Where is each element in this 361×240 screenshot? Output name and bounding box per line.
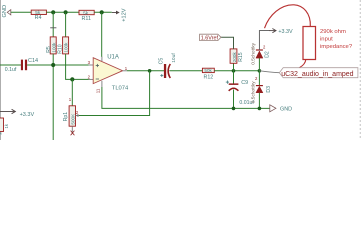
svg-text:R5: R5: [46, 46, 52, 53]
junction R15/C9 node: [232, 69, 236, 73]
svg-text:+3.3V: +3.3V: [278, 29, 293, 35]
junction top node B: [64, 10, 68, 14]
svg-text:1.6Vref: 1.6Vref: [201, 36, 219, 42]
svg-text:0.5chottky: 0.5chottky: [251, 42, 257, 64]
wire pot wiper feedback to output: [79, 71, 150, 116]
potentiometer RP1 500K: [63, 79, 79, 135]
ground flag GND top-left: [2, 5, 11, 18]
pin stub pin 3: [89, 64, 94, 66]
wire R5 to signal row junction: [52, 54, 54, 65]
junction C9 ground: [232, 107, 236, 111]
svg-text:k: k: [0, 132, 2, 136]
svg-text:+3.3V: +3.3V: [20, 112, 35, 118]
svg-text:1k: 1k: [4, 123, 9, 128]
wire node up to D2: [258, 58, 260, 71]
svg-text:1: 1: [69, 97, 72, 102]
output pin stub pin 1: [123, 70, 127, 72]
wire GND to R4: [11, 11, 31, 13]
junction +12V node: [100, 10, 104, 14]
svg-text:2: 2: [88, 74, 91, 79]
wire node down to D3: [258, 71, 260, 86]
wire D2 to +3.3V: [259, 31, 269, 50]
diode D3 schottky: [251, 81, 272, 103]
supply arrow +12V: [112, 8, 128, 21]
ground flag GND bottom-right: [270, 105, 292, 113]
wire output to C5: [127, 70, 164, 72]
svg-text:2: 2: [263, 45, 266, 50]
net label uC32_audio_in_amped: [279, 68, 358, 78]
resistor R5 100k: [46, 37, 57, 54]
power pin bottom (pin 11): [101, 81, 103, 87]
svg-text:U1A: U1A: [107, 54, 119, 60]
svg-text:Rp1: Rp1: [63, 112, 69, 122]
power pin top (12V): [101, 57, 103, 61]
junction D3 ground: [258, 107, 262, 111]
svg-text:input: input: [320, 36, 333, 42]
annotation text 290k ohm input impedance?: [320, 29, 353, 50]
svg-text:5k: 5k: [83, 10, 89, 15]
annotation red pointer line: [282, 60, 306, 74]
wire +12V junction to op-amp: [101, 12, 103, 57]
svg-text:100k: 100k: [51, 42, 56, 53]
svg-text:0.5chottky: 0.5chottky: [251, 81, 257, 103]
resistor R4 5k: [31, 10, 46, 21]
annotation red rectangle: [303, 27, 316, 60]
svg-text:GND: GND: [2, 5, 8, 18]
junction diode node: [258, 69, 262, 73]
svg-text:uC32_audio_in_amped: uC32_audio_in_amped: [281, 71, 353, 78]
svg-text:impedance?: impedance?: [320, 44, 353, 50]
wire node down to C9: [233, 71, 235, 84]
junction top node A: [51, 10, 55, 14]
wire C9 to ground rail: [233, 90, 235, 109]
wire R4 to R11: [46, 11, 79, 13]
wire R10 down to inverting row: [66, 54, 89, 80]
net flag 1.6Vref: [200, 34, 221, 41]
svg-text:500K: 500K: [70, 113, 75, 125]
wire R12 to clamp node: [214, 70, 259, 72]
svg-text:100k: 100k: [64, 42, 69, 53]
wire diode node to label: [259, 71, 279, 73]
svg-text:C9: C9: [241, 80, 248, 86]
frame border left: [0, 0, 1, 140]
capacitor C5 10uf: [158, 53, 177, 78]
svg-text:1: 1: [125, 66, 128, 71]
svg-text:R4: R4: [35, 15, 42, 21]
annotation red curve top: [265, 5, 311, 28]
diode D2 schottky: [251, 42, 271, 64]
frame border right: [359, 0, 361, 140]
svg-text:C14: C14: [28, 58, 38, 64]
svg-text:3: 3: [88, 60, 91, 65]
wire C14 to op-amp pin 3: [27, 64, 89, 66]
junction pot top node: [70, 77, 74, 81]
capacitor C14 0.1uf: [5, 58, 38, 73]
wire node B down to R10: [65, 12, 67, 37]
junction signal node: [51, 63, 55, 67]
svg-text:11: 11: [95, 88, 100, 93]
resistor at left edge (partial): [0, 118, 9, 136]
pin stub pin 2: [89, 78, 94, 80]
wire R15 top to 1.6Vref label: [221, 37, 234, 49]
wire node up to R15: [233, 63, 235, 71]
svg-text:2: 2: [255, 76, 258, 81]
resistor R15 200k: [230, 49, 244, 63]
capacitor C9 0.01uf: [226, 80, 255, 106]
wire node A down to R5: [52, 12, 54, 37]
svg-text:R10: R10: [58, 44, 64, 54]
wire C5 to R12: [169, 70, 202, 72]
wire R11 to +12V: [94, 11, 112, 13]
wire input left edge: [0, 64, 21, 66]
svg-text:D2: D2: [264, 51, 270, 58]
svg-text:TL074: TL074: [112, 86, 129, 92]
svg-text:GND: GND: [280, 106, 292, 112]
svg-text:D3: D3: [266, 86, 272, 93]
plus mark on wire: [50, 27, 56, 29]
svg-text:R15: R15: [238, 52, 244, 62]
op-amp U1A TL074: [93, 54, 129, 91]
svg-text:R12: R12: [204, 75, 214, 81]
svg-text:R11: R11: [82, 16, 92, 22]
wire long vertical off bottom: [52, 65, 54, 140]
svg-text:200k: 200k: [232, 52, 237, 63]
svg-text:50k: 50k: [204, 68, 212, 73]
svg-text:C5: C5: [158, 58, 164, 65]
supply arrow +3.3V top: [269, 29, 293, 36]
supply arrow +3.3V bottom-left: [0, 109, 34, 118]
svg-text:0.1uf: 0.1uf: [5, 67, 17, 73]
wire pin 11 to ground rail: [102, 87, 270, 108]
junction output node: [148, 69, 152, 73]
svg-text:+12V: +12V: [121, 8, 127, 21]
wire D3 to ground rail: [258, 93, 260, 109]
resistor R10 100k: [58, 37, 69, 54]
svg-text:290k ohm: 290k ohm: [320, 29, 346, 35]
svg-text:10uf: 10uf: [171, 53, 177, 63]
resistor R12 50k: [202, 68, 214, 81]
resistor R11 5k: [79, 10, 94, 21]
